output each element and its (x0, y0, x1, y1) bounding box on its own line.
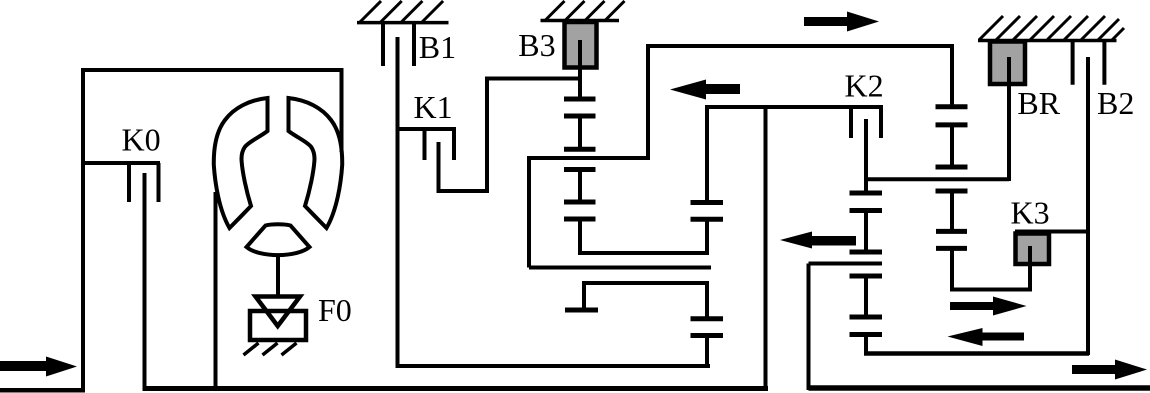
torque converter pump shell (left) (214, 98, 268, 228)
input shell shaft B1-K1 (396, 37, 400, 368)
input arrow (0, 357, 77, 377)
torque converter turbine shell (right) (289, 98, 343, 228)
sun2 column verticals (864, 211, 868, 356)
brake B2 (1073, 42, 1105, 85)
clutch K3 piston (1016, 234, 1050, 265)
wire H5 carrier2 (809, 264, 883, 391)
housing box top (81, 68, 344, 72)
F0 ground hatching (244, 343, 297, 355)
top power-flow arrow (804, 12, 879, 32)
K3 top wire (1015, 230, 1090, 234)
wire K2 to BR (866, 177, 1009, 181)
B3 ground hatching (546, 1, 625, 20)
BR shaft (1007, 57, 1011, 181)
wire H1 ring1 top (529, 156, 711, 268)
svg-text:K0: K0 (122, 122, 161, 158)
wire H4 bottom (398, 364, 711, 368)
ring3 column vertical segments (950, 125, 954, 292)
ring2 column verticals (705, 219, 709, 368)
gear bars column planet2 (691, 203, 724, 336)
wire H3 carrier1-ring2 (582, 283, 709, 310)
brake B3 piston (565, 22, 597, 68)
svg-text:B1: B1 (419, 29, 456, 65)
svg-text:K1: K1 (414, 89, 453, 125)
svg-text:B2: B2 (1097, 85, 1134, 121)
svg-text:K2: K2 (845, 68, 884, 104)
sun gear shaft S1 (578, 40, 582, 255)
right ceiling ground bar (978, 39, 1117, 43)
wire H7 to K3 (950, 288, 1030, 292)
right ceiling hatching (979, 16, 1124, 40)
clutch K1 (398, 129, 457, 193)
right flow arrow small (950, 297, 1027, 316)
torque converter stator fan (247, 224, 310, 255)
bottom rail A (143, 386, 769, 391)
left flow arrow small (948, 328, 1025, 346)
wire H0 ring1 output (578, 251, 709, 255)
top feedback wire (646, 44, 952, 160)
left flow arrow middle (780, 232, 856, 249)
brake B1 ground bar (357, 21, 449, 25)
ring3 column bars (936, 107, 968, 249)
svg-text:B3: B3 (518, 27, 555, 63)
sun2 column bars (850, 193, 883, 335)
svg-text:F0: F0 (318, 292, 352, 328)
wire H6 to output (864, 351, 1089, 356)
B2 shaft (1086, 57, 1090, 355)
brake B1 (383, 23, 414, 66)
brake B3 ground bar (541, 19, 620, 23)
housing box left edge (81, 68, 85, 391)
clutch K2 (705, 107, 883, 193)
one-way clutch F0 case (250, 311, 306, 340)
output arrow (1072, 360, 1147, 380)
carrier2 shaft (705, 107, 709, 203)
one-way clutch F0 triangle (256, 297, 301, 327)
svg-text:BR: BR (1017, 85, 1060, 121)
housing box right edge (340, 68, 344, 152)
brake BR piston (990, 42, 1025, 85)
K1 output wire (437, 79, 581, 194)
bottom-left ground stub (0, 388, 85, 393)
bottom rail B (809, 385, 1150, 391)
carrier 1 lower bar (565, 308, 598, 313)
left flow arrow upper (670, 80, 740, 100)
B1 ground hatching (360, 1, 443, 22)
output shaft vertical (764, 107, 768, 389)
svg-text:K3: K3 (1011, 195, 1050, 231)
stator shaft wire (276, 256, 280, 297)
clutch K0 (83, 163, 160, 390)
torque converter housing leg (214, 192, 218, 390)
gear bars column S1 (564, 99, 596, 219)
K3 shaft (1028, 246, 1032, 292)
